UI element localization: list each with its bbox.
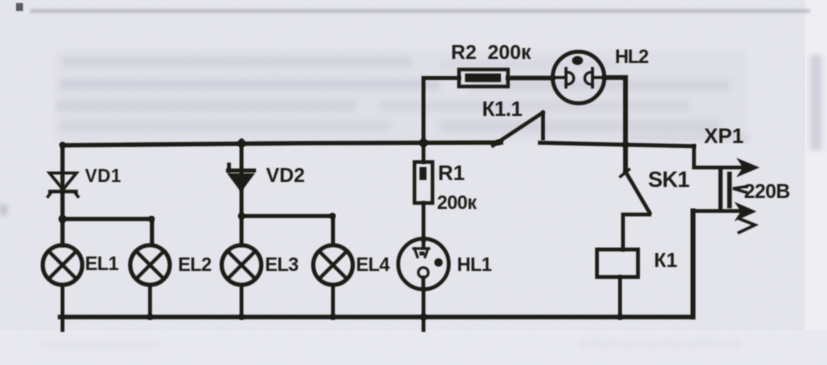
wire: R2 branch riser [424,78,460,144]
svg-text:R1: R1 [438,162,465,185]
wire: top rail left segment [63,143,502,146]
wire: EL4 bottom lead [331,286,335,317]
wire: VD2 node branch to EL4 [242,216,334,243]
lamp EL2 [130,245,170,285]
node: VD1 branch junction [59,215,67,223]
node: EL2 bottom rail junction [147,314,153,320]
relay coil K1 [597,250,638,278]
wire: EL3 bottom lead [240,286,244,317]
resistor R2 [459,70,508,87]
wire: R1 top lead [422,144,426,163]
lamp EL1 [43,245,83,285]
neon lamp HL1 [398,239,449,290]
wire: XP1 bottom return [691,211,696,317]
svg-text:200к: 200к [437,193,477,214]
svg-text:XP1: XP1 [704,125,744,148]
wire: HL2 to SK1 node [605,78,626,172]
resistor R1 [415,162,433,203]
wire: K1 coil bottom lead [618,277,622,317]
node: rail left corner [59,142,65,148]
svg-text:R2 200к: R2 200к [451,42,532,64]
svg-text:К1: К1 [654,250,677,272]
wire: SK1 lower link to K1 coil [623,215,650,250]
svg-text:HL1: HL1 [457,255,492,276]
node: HL2/SK1 rail junction [622,141,628,147]
svg-text:EL2: EL2 [178,255,211,276]
wire: EL1 bottom lead [61,286,65,330]
node: EL3 bottom rail junction [239,314,245,320]
wire: VD1 node branch to EL2 [63,219,153,244]
svg-text:SK1: SK1 [648,167,690,192]
neon lamp HL2 [553,52,605,104]
switch SK1 [621,170,650,213]
svg-text:VD1: VD1 [85,166,122,186]
diode VD1 [48,173,78,197]
diode VD2 [228,165,254,191]
wire: EL2 bottom lead [148,286,152,317]
node: VD2 rail overshoot stub [240,139,243,145]
wire: R1 to HL1 [422,203,426,240]
node: VD2 branch corner [329,213,335,219]
node: EL4 bottom rail junction [330,314,336,320]
wire: HL1 bottom lead [422,289,426,330]
connector XP1 [694,146,757,233]
node: VD1 branch corner [148,216,154,222]
wire: R2 to HL2 [508,76,553,80]
svg-text:220В: 220В [744,181,790,203]
node: HL1 bottom rail junction [420,314,427,321]
node: R1/R2 rail junction [419,138,428,147]
svg-text:EL4: EL4 [356,255,390,276]
wire: bottom rail [60,315,693,319]
svg-text:HL2: HL2 [615,47,648,68]
wire: left vertical with VD1 branch [60,145,64,245]
wire: VD2 vertical [240,144,244,246]
relay contact K1.1 [493,113,543,146]
lamp EL3 [222,245,262,285]
lamp EL4 [313,245,353,285]
wire: top rail right segment [540,143,694,146]
svg-text:VD2: VD2 [266,165,305,187]
svg-text:EL3: EL3 [265,255,298,276]
node: VD2 rail junction [237,139,245,147]
node: K1.1 left contact [495,140,501,146]
svg-text:К1.1: К1.1 [482,98,523,121]
node: VD2 branch junction [238,212,245,219]
node: K1 coil bottom rail junction [617,314,623,320]
svg-text:EL1: EL1 [85,254,119,275]
